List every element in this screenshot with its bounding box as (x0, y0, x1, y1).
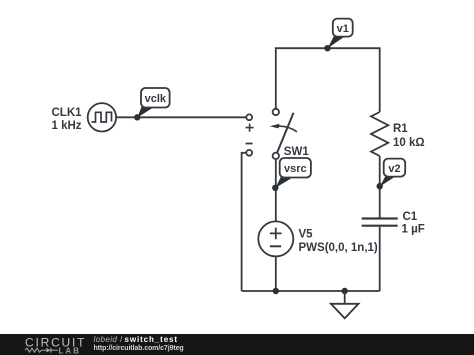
svg-text:vclk: vclk (145, 93, 167, 105)
svg-text:CLK1: CLK1 (52, 107, 83, 119)
CircuitLab logo wordmark (25, 336, 86, 350)
flag v2 (380, 159, 405, 187)
node vclk junction (134, 114, 140, 120)
flag vsrc (275, 158, 311, 188)
svg-text:lobeid: lobeid (94, 335, 118, 344)
switch SW1 voltage-controlled: control terminals (246, 114, 254, 155)
footer bar (0, 334, 474, 355)
CircuitLab logo resistor-diode glyph and LAB (25, 346, 81, 355)
wire switch bottom to V5 (275, 159, 277, 221)
capacitor C1 (362, 219, 398, 226)
node v2 junction (377, 183, 383, 189)
label V5 PWS(0,0, 1n,1) (299, 228, 378, 253)
wire switch top to v1 corner (276, 48, 380, 112)
svg-text:v2: v2 (388, 163, 400, 175)
node vsrc junction (272, 185, 278, 191)
wire bottom rail (242, 290, 380, 292)
node v1 junction (324, 45, 330, 51)
node ground rail junction (342, 288, 348, 294)
voltage source V5 (258, 221, 293, 256)
credits line 1: lobeid / switch_test (94, 335, 178, 344)
ground (331, 291, 359, 318)
wire clock to switch control (116, 116, 246, 118)
node V5 rail junction (273, 288, 279, 294)
wire R1 to C1 (379, 156, 381, 218)
switch SW1 poles and blade (270, 109, 297, 159)
svg-text:SW1: SW1 (284, 146, 310, 158)
label R1 10 kOhm (393, 123, 425, 149)
wire V5 bottom to rail (275, 256, 277, 291)
label CLK1 1 kHz (52, 107, 83, 132)
svg-text:10 kΩ: 10 kΩ (393, 137, 425, 149)
wire control minus to rail (242, 153, 247, 291)
svg-text:R1: R1 (393, 123, 408, 135)
svg-text:V5: V5 (299, 228, 314, 240)
flag v1 (328, 19, 353, 49)
svg-text:1 µF: 1 µF (402, 224, 425, 236)
svg-text:PWS(0,0, 1n,1): PWS(0,0, 1n,1) (299, 242, 378, 254)
svg-text:http://circuitlab.com/c7j9teg: http://circuitlab.com/c7j9teg (94, 345, 184, 352)
wire C1 to rail (379, 227, 381, 291)
resistor R1 (371, 112, 388, 156)
svg-text:vsrc: vsrc (284, 163, 307, 175)
flag vclk (138, 88, 170, 118)
svg-text:LAB: LAB (59, 346, 81, 355)
svg-text:1 kHz: 1 kHz (52, 120, 82, 132)
svg-text:C1: C1 (403, 211, 418, 223)
svg-text:switch_test: switch_test (125, 335, 178, 344)
svg-text:v1: v1 (337, 23, 349, 35)
label C1 1 uF (402, 211, 425, 236)
clock source CLK1 (88, 103, 116, 131)
